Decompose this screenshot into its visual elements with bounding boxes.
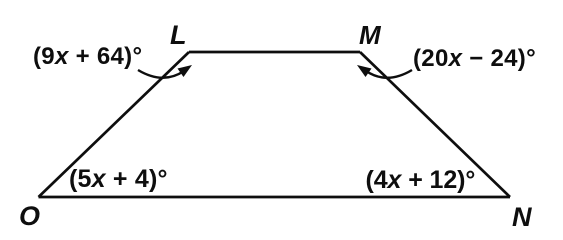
svg-text:(4x + 12)°: (4x + 12)° [366, 166, 476, 194]
arc arrow at M [357, 65, 412, 78]
svg-text:(5x + 4)°: (5x + 4)° [69, 165, 168, 193]
arc arrow at L [138, 65, 192, 78]
svg-text:O: O [19, 201, 40, 230]
side LM (top) [189, 51, 360, 54]
svg-text:(9x + 64)°: (9x + 64)° [33, 43, 142, 70]
svg-text:(20x − 24)°: (20x − 24)° [413, 45, 536, 72]
svg-text:L: L [170, 20, 187, 50]
svg-text:N: N [512, 202, 532, 230]
svg-text:M: M [359, 20, 382, 50]
side NO (bottom) [39, 196, 511, 199]
side MN (right leg) [360, 52, 510, 197]
side OL (left leg) [39, 52, 190, 197]
